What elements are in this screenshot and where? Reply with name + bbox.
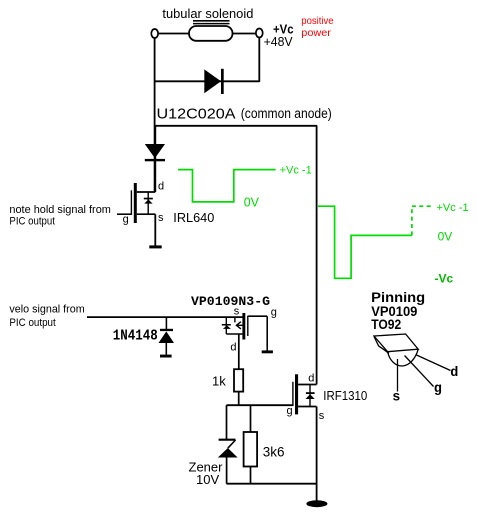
svg-text:TO92: TO92 [371,317,401,332]
wire bottom horizontal [227,483,317,485]
wire left terminal to solenoid [158,33,189,35]
wire Q3 source down [316,407,318,502]
waveform output (green) [318,206,432,278]
solenoid L1 [189,21,233,41]
diode U12C020A D2 [145,144,165,161]
svg-text:0V: 0V [438,230,453,244]
wire Q1 drain up [154,126,156,192]
terminal circle left [151,29,158,38]
ground blob [306,500,327,507]
note text hold signal [9,204,111,228]
TO92 lead g [405,356,442,397]
ground bar Q1 source [149,245,161,248]
svg-text:-Vc: -Vc [435,272,454,286]
mosfet Q3 IRF1310 [287,373,325,423]
resistor R1 1k [234,369,243,391]
svg-text:d: d [230,341,236,353]
svg-text:0V: 0V [244,195,260,209]
svg-text:PIC output: PIC output [9,317,55,329]
svg-text:10V: 10V [196,472,219,487]
svg-text:d: d [308,373,314,385]
svg-text:Pinning: Pinning [371,290,425,305]
svg-text:U12C020A: U12C020A [157,106,236,123]
svg-text:d: d [158,181,164,193]
ground bar Q2 gate [262,350,273,353]
wire node horizontal [227,404,293,406]
wire top horizontal bus [155,125,318,127]
svg-text:note hold signal from: note hold signal from [9,204,111,216]
wire Q2 drain down [238,334,240,369]
svg-text:1k: 1k [212,374,226,389]
mosfet Q2 VP0109N3-G [222,306,277,354]
svg-text:s: s [392,391,400,406]
svg-text:g: g [434,382,442,397]
ground bar D3 [160,355,172,358]
label velo signal [9,303,84,329]
svg-text:s: s [158,212,164,224]
label Pinning VP0109 TO92 [371,290,425,332]
wire left vertical [154,38,156,192]
svg-text:s: s [319,410,325,422]
wire velo signal horizontal [87,316,243,318]
wire zener up [226,405,228,439]
svg-text:VP0109N3-G: VP0109N3-G [191,294,270,309]
wire solenoid to right terminal [233,33,256,35]
TO92 package drawing [374,334,418,366]
svg-text:IRL640: IRL640 [173,211,214,225]
wire R1 to node [238,392,240,406]
svg-text:3k6: 3k6 [263,445,285,460]
TO92 lead d [417,355,459,381]
svg-text:+48V: +48V [264,35,294,49]
svg-text:g: g [287,405,293,417]
svg-text:s: s [234,306,240,318]
wire right vertical [258,38,260,83]
mosfet Q1 IRL640 [117,181,164,226]
svg-text:g: g [271,307,277,319]
waveform hold signal (green) [178,170,276,202]
svg-text:PIC output: PIC output [9,215,55,227]
svg-text:g: g [123,214,129,226]
svg-text:power: power [301,27,331,39]
terminal circle right [256,29,263,38]
TO92 lead s [392,359,400,406]
svg-text:positive: positive [301,15,333,27]
svg-text:IRF1310: IRF1310 [323,388,367,403]
wire Q3 drain long vertical [316,126,318,385]
label Zener 10V [189,460,224,488]
wire 3k6 up [250,405,252,432]
wire Q1 source down [154,214,156,246]
label positive power (red) [301,15,333,39]
resistor R2 3k6 [244,432,258,467]
svg-text:tubular solenoid: tubular solenoid [162,6,253,21]
svg-text:(common anode): (common anode) [241,106,332,121]
svg-text:1N4148: 1N4148 [113,327,158,344]
wire 3k6 down [250,467,252,484]
svg-text:d: d [450,366,458,381]
svg-text:+Vc -1: +Vc -1 [280,164,312,176]
diode D3 1N4148 [159,317,175,355]
flyback diode D1 [204,69,223,94]
svg-text:+Vc -1: +Vc -1 [437,202,469,214]
wire zener down [226,457,228,483]
zener diode D4 [218,440,238,458]
wire flyback diode horizontal [155,80,260,82]
svg-text:velo signal from: velo signal from [9,303,84,315]
